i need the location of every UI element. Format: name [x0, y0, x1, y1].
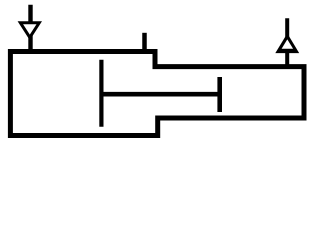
piston P1 (first stage piston) [99, 60, 103, 127]
cylinder barrel outline (telescopic cylinder body, large stage + small stage) [10, 52, 304, 136]
piston P2 (second stage piston) [217, 77, 222, 112]
wire (left vent stem) [28, 5, 32, 54]
piston rod [101, 92, 220, 97]
port tick (pressure port on top of barrel) [142, 33, 147, 54]
wire (right vent stem) [285, 18, 289, 67]
vent arrow V2 (hollow triangle pointing up) [275, 33, 299, 53]
vent arrow V1 (hollow triangle pointing down) [18, 21, 42, 40]
